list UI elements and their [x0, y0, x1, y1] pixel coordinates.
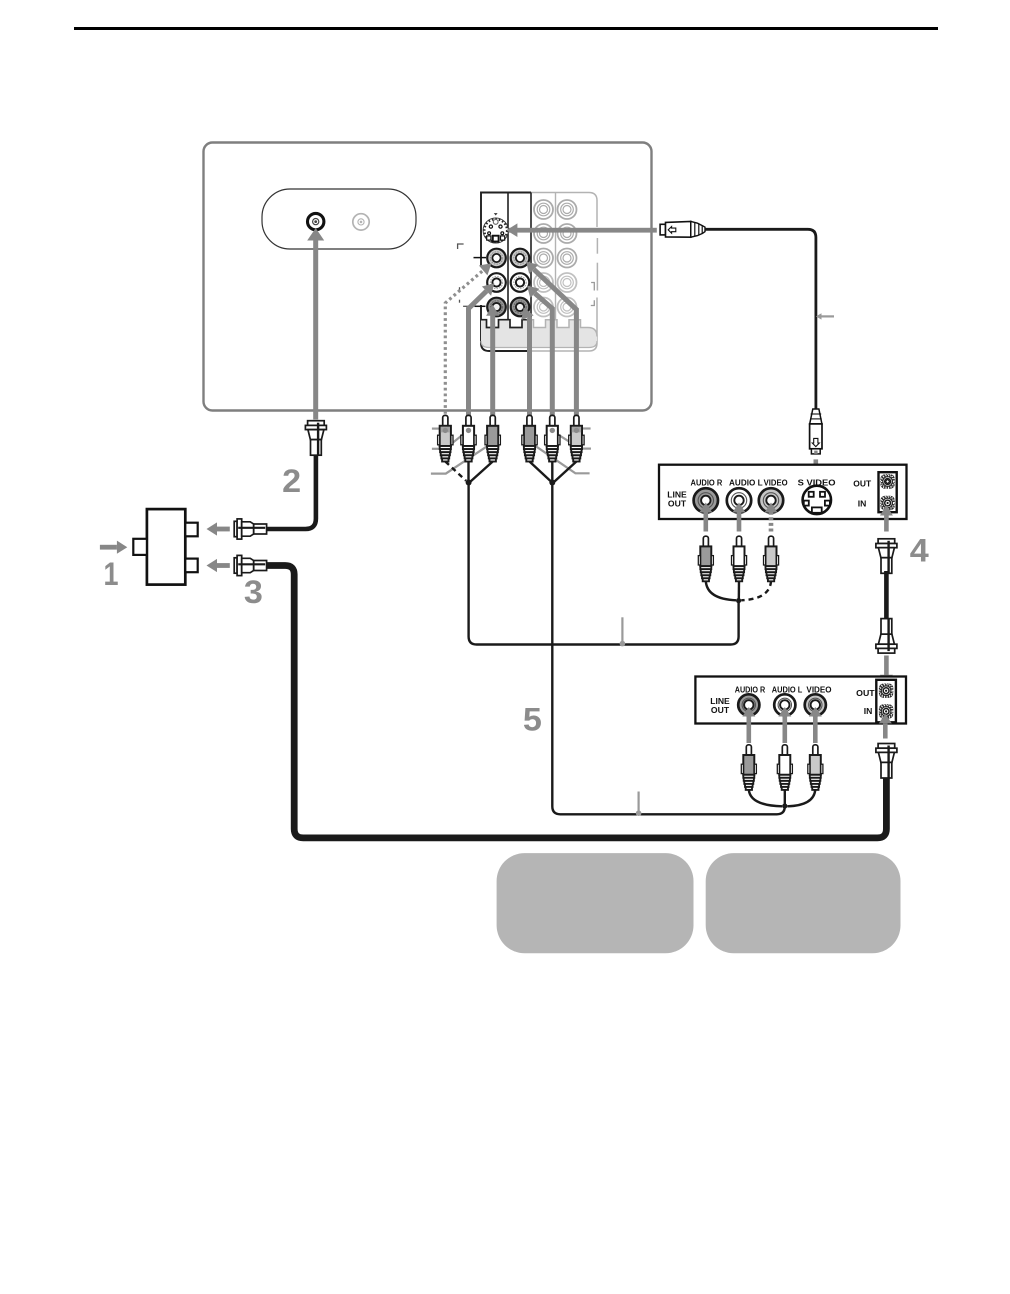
arrow into VCR2 OUT coax jack	[884, 656, 889, 676]
VIDEO 1 audio L jack right	[511, 273, 530, 292]
top horizontal rule	[74, 27, 938, 30]
VCR1 plug AUDIO L	[732, 536, 747, 581]
ghost jack col3 row 209.5	[534, 200, 553, 219]
VCR2 VIDEO jack	[805, 694, 826, 715]
VCR1 plug AUDIO R	[698, 536, 713, 581]
splitter input port	[133, 539, 147, 555]
shelf outline dark part	[481, 320, 531, 328]
antenna recess (stadium shape)	[262, 189, 416, 249]
svg-text:5: 5	[523, 702, 542, 738]
A/V cable plug white (left group)	[461, 415, 476, 461]
VCR1 AUDIO L jack	[727, 488, 751, 512]
cable 2 plug at splitter	[234, 519, 266, 539]
VIDEO 1 audio R jack left	[487, 298, 506, 317]
arrow into VCR1 IN coax jack	[884, 516, 889, 532]
dashed cable from yellow plug (left)	[445, 462, 466, 481]
VCR1 plug VIDEO	[764, 536, 779, 581]
svg-text:OUT: OUT	[853, 478, 872, 488]
svg-text:VIDEO: VIDEO	[806, 685, 831, 694]
gray callout box left	[497, 853, 694, 953]
cable 2 (splitter to TV antenna)	[258, 455, 316, 529]
ghost jack col3 row 233.5	[534, 224, 553, 243]
dashed group-box corner marks (right)	[591, 283, 594, 291]
VCR2 AUDIO R jack	[738, 694, 759, 715]
arrow into VCR2 IN coax jack	[883, 724, 888, 739]
VCR2 plug AUDIO R	[741, 745, 756, 790]
A/V cable plug red (right group)	[522, 415, 537, 461]
leader pointer on S-video cable	[819, 315, 834, 317]
cable from white plug (right)	[551, 462, 553, 483]
leader line to left white plug	[432, 448, 441, 450]
S VIDEO input jack (TV)	[483, 218, 508, 243]
svg-text:OUT: OUT	[668, 498, 687, 508]
VIDEO 1 video in jack R	[511, 249, 530, 268]
leader line to left yellow plug	[432, 428, 440, 430]
VIDEO 1 video in jack L	[487, 249, 506, 268]
svg-text:4: 4	[910, 532, 929, 568]
tick mark at bottom audio row	[475, 305, 486, 307]
splitter output port B	[185, 559, 197, 573]
cable 3 (splitter to VCR2 IN)	[258, 566, 886, 838]
leader dot on VCR1 cable	[621, 617, 623, 643]
ghost jack col4 row 258	[558, 249, 577, 268]
VCR2 IN coax jack	[879, 704, 893, 718]
leader dot on VCR2 cable	[637, 792, 639, 813]
svg-text:IN: IN	[864, 706, 873, 716]
ghost jack col4 row 209.5	[558, 200, 577, 219]
leader line to right white plug	[554, 432, 574, 444]
cable junction (left group)	[466, 480, 472, 486]
ghost jack col3 row 258	[534, 249, 553, 268]
A/V cable plug yellow (left group)	[438, 415, 453, 461]
dotted arrow (video, optional) to VIDEO-1 L jack	[445, 270, 483, 419]
cable 3 plug at VCR2 IN	[876, 744, 897, 779]
gap in panel edge where cables cross	[479, 267, 482, 305]
VCR2 plug cables	[749, 790, 782, 807]
arrow to bottom-right jack	[528, 318, 530, 420]
A/V cable plug white (right group)	[545, 415, 560, 461]
VCR1 F plate	[879, 472, 897, 512]
svg-text:IN: IN	[858, 498, 867, 508]
VCR2 OUT coax jack	[879, 684, 893, 698]
arrow to VIDEO-1 audio jack (right col)	[535, 293, 553, 419]
jack panel dashed right edge	[596, 238, 598, 254]
VCR2 rear panel box	[695, 677, 906, 724]
svg-text:AUDIO L: AUDIO L	[729, 478, 763, 487]
cable from yellow plug (right)	[555, 462, 577, 482]
svg-text:OUT: OUT	[856, 688, 875, 698]
VCR2 F plate	[876, 680, 896, 723]
cable from white plug (left)	[467, 462, 469, 483]
ghost jack col3 row 307	[534, 298, 553, 317]
antenna cable arrow into VHF/UHF jack	[313, 241, 318, 420]
A/V cable run to VCR1	[469, 483, 739, 645]
VIDEO 1 audio L jack left	[487, 273, 506, 292]
jack panel lower shelf (gray molded area)	[481, 320, 597, 348]
shelf outline light part	[531, 320, 597, 337]
ghost jack col3 row 282.5	[534, 273, 553, 292]
ghost jack col4 row 307	[558, 298, 577, 317]
svg-text:VIDEO: VIDEO	[764, 478, 788, 487]
VCR1 plug cables	[706, 581, 736, 600]
VCR1 IN coax jack	[880, 496, 894, 510]
splitter output port A	[185, 523, 197, 537]
ghost jack col4 row 233.5	[558, 224, 577, 243]
S-video cable from TV to VCR1	[705, 229, 816, 409]
svg-text:AUDIO L: AUDIO L	[772, 685, 803, 694]
arrow into VCR2 AUDIO L jack	[783, 716, 788, 743]
svg-text:AUDIO R: AUDIO R	[691, 478, 723, 487]
ghost jack col4 row 282.5	[558, 273, 577, 292]
S-video plug at TV (pointing left)	[660, 221, 705, 237]
panel divider line 1	[507, 193, 509, 321]
leader line to right yellow plug	[582, 427, 591, 429]
arrow into VCR2 AUDIO R jack	[747, 716, 752, 743]
coax cable 4 upper plug	[876, 539, 897, 574]
A/V cable plug yellow (right group)	[569, 415, 584, 461]
VCR1 rear panel box	[659, 465, 907, 519]
big S-video arrow into TV S VIDEO jack	[509, 228, 657, 233]
arrow into splitter port B plug	[217, 563, 230, 568]
VCR1 AUDIO R jack	[694, 488, 718, 512]
coax cable 4	[884, 571, 889, 620]
VCR1 VIDEO jack	[759, 488, 783, 512]
svg-text:1: 1	[104, 556, 119, 592]
coax cable 4 lower plug	[876, 619, 897, 654]
leader line to right red plug	[535, 446, 589, 474]
VCR2 AUDIO L jack	[774, 694, 795, 715]
A/V cable plug red (left group)	[485, 415, 500, 461]
VCR1 S VIDEO jack	[803, 486, 831, 514]
panel divider line 2	[530, 193, 532, 321]
VIDEO 1 audio R jack right	[511, 298, 530, 317]
cable 3 plug at splitter	[234, 555, 266, 575]
cable from red plug (right)	[530, 462, 552, 482]
VCR1 OUT coax jack	[880, 474, 894, 488]
panel divider line 3 (light)	[555, 193, 557, 321]
dashed arrow into VCR1 VIDEO jack	[769, 513, 774, 532]
gray callout box right	[706, 853, 901, 953]
A/V cable run to VCR2	[552, 483, 785, 815]
svg-text:3: 3	[244, 574, 263, 610]
cable junction (right group)	[549, 480, 555, 486]
VHF/UHF antenna jack (dark)	[308, 213, 324, 229]
splitter body	[147, 509, 185, 584]
arrow into splitter input	[100, 545, 117, 550]
arrow into VCR1 AUDIO R jack	[704, 513, 709, 532]
dashed group-box corner marks (left)	[458, 244, 464, 249]
svg-text:2: 2	[282, 463, 301, 499]
arrow from S-video plug into VCR1 S VIDEO jack	[814, 459, 819, 476]
leader line to left red plug	[431, 446, 487, 473]
AUX antenna jack (light)	[353, 214, 369, 230]
VCR2 plug VIDEO	[808, 745, 823, 790]
tick mark at VIDEO row	[474, 257, 487, 259]
S-video plug at VCR1 (pointing down)	[810, 409, 822, 454]
arrow to VIDEO-1 video jack (right col)	[534, 269, 577, 419]
arrow into VCR2 VIDEO jack	[813, 716, 818, 743]
small triangle marker above S VIDEO jack	[494, 213, 498, 215]
VCR2 plug AUDIO L	[777, 745, 792, 790]
arrow into splitter port A plug	[217, 527, 230, 532]
cable from red plug (left)	[471, 462, 493, 482]
svg-text:OUT: OUT	[711, 705, 730, 715]
TV jack panel outer boundary (light)	[481, 193, 597, 352]
arrow to bottom-left jack	[490, 316, 495, 420]
arrow into VCR1 AUDIO L jack	[737, 513, 742, 532]
cable 2 plug at TV antenna	[305, 421, 326, 456]
arrow to VIDEO-1 audio jack (left col)	[469, 291, 487, 419]
jack panel dark left/top/bottom edges	[481, 193, 531, 352]
TV rear panel outline	[204, 143, 652, 411]
